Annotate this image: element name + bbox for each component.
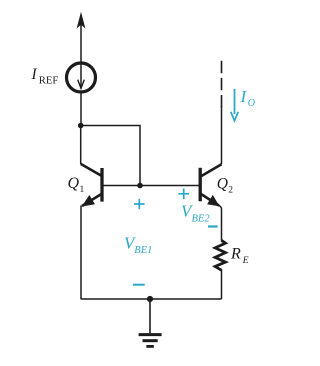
svg-text:1: 1 [80, 185, 85, 195]
svg-text:Q: Q [68, 175, 80, 192]
resistor RE [215, 240, 225, 270]
wire node A to base link [81, 126, 140, 186]
node B junction dot [137, 183, 143, 189]
ground [139, 299, 162, 346]
minus sign VBE2 [208, 225, 218, 227]
minus sign VBE1 [133, 284, 145, 286]
svg-text:E: E [242, 256, 249, 266]
svg-text:R: R [230, 245, 241, 262]
wire resistor bottom to rail [221, 270, 223, 300]
svg-text:O: O [248, 98, 255, 109]
svg-text:Q: Q [217, 176, 228, 193]
current arrow IO [234, 89, 236, 114]
wire bottom rail [81, 298, 222, 300]
plus sign VBE2 [178, 189, 189, 200]
current source U1 circle [67, 63, 96, 92]
svg-text:BE1: BE1 [134, 245, 152, 256]
svg-text:REF: REF [39, 75, 59, 87]
plus sign VBE1 [134, 199, 145, 210]
svg-text:2: 2 [228, 186, 233, 196]
svg-text:I: I [240, 87, 248, 106]
transistor Q2 [200, 164, 221, 205]
node C junction dot [147, 296, 153, 302]
arrow up at top [77, 13, 85, 28]
transistor Q1 [81, 164, 102, 206]
wire Q2 emitter corner down to resistor [219, 206, 222, 241]
wire dashed collector stub above Q2 [221, 61, 223, 108]
wire base bus Q1 to Q2 [102, 185, 200, 187]
node A junction dot [78, 123, 84, 129]
svg-text:I: I [31, 66, 38, 83]
wire left rail down to Q1 collector [80, 126, 82, 165]
svg-text:BE2: BE2 [192, 213, 211, 224]
wire top output of current source [80, 22, 82, 62]
wire Q1 emitter down to bottom rail [80, 206, 82, 300]
wire circle bottom to node A [80, 93, 82, 126]
wire Q2 collector [221, 106, 223, 164]
current source internal down arrow [80, 65, 82, 88]
